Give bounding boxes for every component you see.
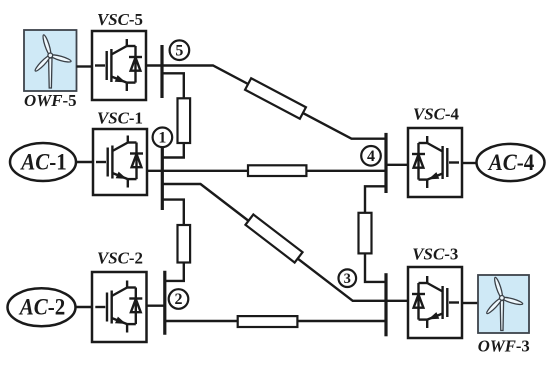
svg-text:OWF-3: OWF-3 bbox=[478, 337, 530, 356]
resistor on line 1-2 bbox=[178, 225, 191, 263]
svg-text:VSC-2: VSC-2 bbox=[97, 249, 143, 268]
bus 2 bbox=[163, 271, 166, 335]
node 5 circle bbox=[170, 40, 190, 60]
line 4-3 upper wire bbox=[365, 186, 386, 213]
line 1-2 lower wire bbox=[165, 263, 184, 281]
wind farm box OWF-5 bbox=[24, 30, 77, 91]
line 1-2 upper wire bbox=[162, 200, 184, 225]
IGBT symbol in VSC-5 bbox=[95, 39, 142, 91]
IGBT symbol in VSC-2 bbox=[95, 281, 142, 333]
wire VSC-5 to bus 5 and line 5-4 bbox=[146, 66, 386, 139]
bus 5 bbox=[160, 45, 163, 98]
bus 1 bbox=[161, 146, 164, 210]
svg-text:VSC-1: VSC-1 bbox=[97, 108, 143, 127]
IGBT symbol in VSC-1 bbox=[96, 136, 143, 188]
wind turbine in OWF-3 bbox=[485, 277, 523, 331]
wire AC-2 to VSC-2 bbox=[76, 306, 93, 308]
wire OWF-5 to VSC-5 bbox=[77, 65, 93, 67]
IGBT symbol in VSC-4 (mirrored) bbox=[412, 136, 459, 188]
svg-text:OWF-5: OWF-5 bbox=[24, 91, 77, 110]
svg-text:AC-2: AC-2 bbox=[18, 295, 65, 320]
svg-text:4: 4 bbox=[367, 148, 375, 165]
converter VSC-4 box bbox=[408, 128, 462, 197]
wire VSC-4 to AC-4 bbox=[462, 162, 477, 164]
svg-text:VSC-3: VSC-3 bbox=[412, 244, 458, 263]
node 4 circle bbox=[361, 146, 381, 166]
bus 4 bbox=[384, 133, 387, 193]
converter VSC-5 box bbox=[92, 31, 146, 100]
resistor on line 5-1 bbox=[178, 98, 191, 143]
node 2 circle bbox=[169, 289, 189, 309]
svg-text:VSC-4: VSC-4 bbox=[413, 104, 459, 123]
resistor on line 2-3 bbox=[238, 316, 298, 327]
resistor on line 4-3 bbox=[359, 213, 372, 254]
wire VSC-2 to bus 2 bbox=[147, 305, 165, 307]
node 3 circle bbox=[339, 269, 357, 287]
node 1 circle bbox=[153, 128, 173, 148]
wind turbine in OWF-5 bbox=[34, 34, 72, 88]
AC source AC-2 bbox=[8, 288, 76, 326]
converter VSC-2 box bbox=[92, 272, 147, 342]
AC source AC-1 bbox=[10, 143, 76, 181]
wire AC-1 to VSC-1 bbox=[76, 161, 93, 163]
resistor on line 1-4 bbox=[248, 165, 306, 176]
svg-text:1: 1 bbox=[158, 130, 166, 147]
line 5-1 upper wire bbox=[162, 73, 184, 98]
svg-text:VSC-5: VSC-5 bbox=[97, 10, 143, 29]
wire bus 3 to VSC-3 bbox=[386, 300, 408, 302]
wire bus 4 to VSC-4 bbox=[386, 164, 408, 166]
bus 3 bbox=[384, 273, 387, 336]
svg-text:2: 2 bbox=[175, 291, 183, 308]
line 4-3 lower wire bbox=[365, 253, 386, 282]
AC source AC-4 bbox=[477, 144, 545, 181]
svg-text:AC-4: AC-4 bbox=[487, 150, 535, 175]
converter VSC-1 box bbox=[93, 129, 147, 195]
svg-text:5: 5 bbox=[175, 42, 183, 59]
wire VSC-3 to OWF-3 bbox=[462, 302, 478, 304]
svg-text:3: 3 bbox=[344, 271, 351, 287]
resistor on line 5-4 bbox=[245, 78, 306, 119]
IGBT symbol in VSC-3 (mirrored) bbox=[412, 276, 459, 328]
resistor on line 1-3 bbox=[245, 214, 302, 262]
line 1-4 bbox=[147, 170, 386, 172]
line 1-3 bbox=[162, 184, 386, 301]
converter VSC-3 box bbox=[408, 267, 462, 338]
svg-text:AC-1: AC-1 bbox=[19, 149, 66, 174]
wind farm box OWF-3 bbox=[478, 275, 529, 333]
line 5-1 lower wire bbox=[162, 143, 184, 158]
line 2-3 bbox=[165, 320, 386, 322]
